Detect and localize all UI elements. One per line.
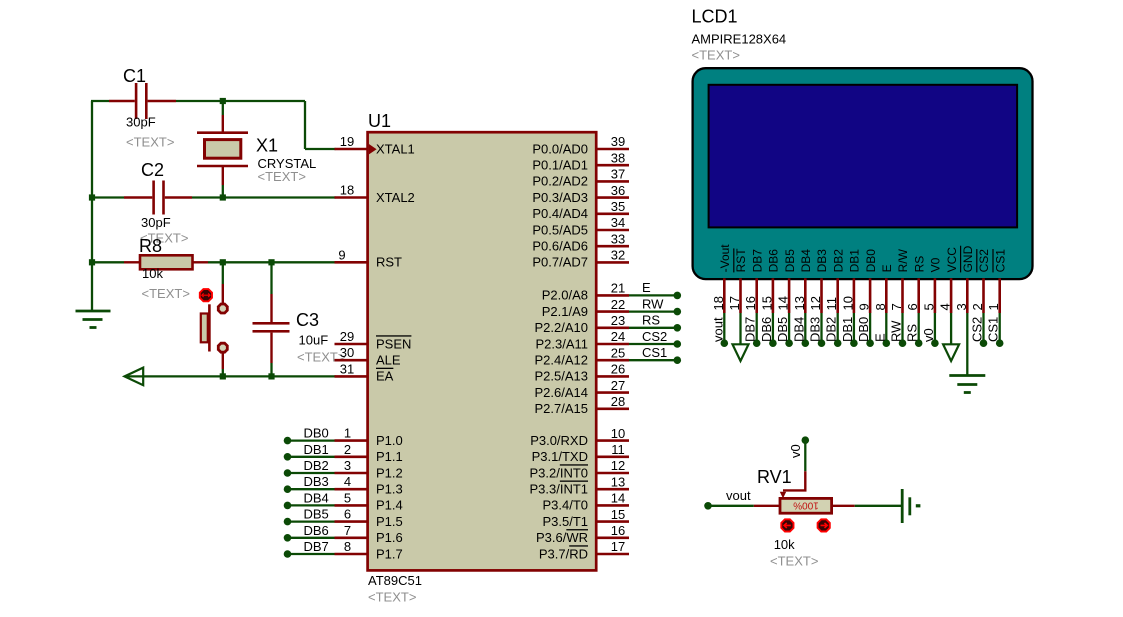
pin stub P3.7 (pin 17) xyxy=(595,553,629,556)
wire LCD DB6 net xyxy=(772,313,774,341)
svg-text:RS: RS xyxy=(905,324,920,342)
wire LCD CS1 net xyxy=(999,313,1001,341)
svg-text:v0: v0 xyxy=(788,444,803,458)
svg-text:35: 35 xyxy=(611,199,625,214)
arrow terminal (down) at LCD RST xyxy=(733,344,749,361)
wire DB2 net xyxy=(288,472,335,474)
svg-text:P2.1/A9: P2.1/A9 xyxy=(542,304,588,319)
svg-text:DB5: DB5 xyxy=(775,317,790,342)
svg-text:DB2: DB2 xyxy=(824,317,839,342)
terminal dot E xyxy=(674,292,682,300)
svg-text:<TEXT>: <TEXT> xyxy=(258,169,306,184)
svg-text:18: 18 xyxy=(711,296,726,310)
terminal dot DB2 xyxy=(284,469,292,477)
svg-text:-Vout: -Vout xyxy=(718,244,732,273)
svg-text:P1.3: P1.3 xyxy=(376,482,403,497)
pin stub P0.1 (pin 38) xyxy=(595,164,629,167)
svg-text:XTAL2: XTAL2 xyxy=(376,190,415,205)
node junction button bottom / EA rail xyxy=(220,373,226,379)
svg-text:7: 7 xyxy=(889,303,904,310)
wire RW net xyxy=(629,310,677,312)
svg-text:10k: 10k xyxy=(774,537,795,552)
pin stub EA (pin 31) xyxy=(335,375,369,378)
svg-text:CS2: CS2 xyxy=(970,317,985,342)
wire LCD VCC to arrow xyxy=(950,313,952,345)
svg-text:<TEXT>: <TEXT> xyxy=(770,554,818,569)
svg-text:3: 3 xyxy=(954,303,969,310)
wire LCD -Vout net xyxy=(723,313,725,341)
wire DB7 net xyxy=(288,553,335,555)
terminal dot LCD V0 xyxy=(931,339,939,347)
svg-text:DB6: DB6 xyxy=(767,249,781,273)
svg-text:<TEXT>: <TEXT> xyxy=(368,590,416,605)
svg-text:100%: 100% xyxy=(793,500,819,511)
svg-text:16: 16 xyxy=(743,296,758,310)
wire R8 rail left segment xyxy=(91,261,124,263)
svg-text:23: 23 xyxy=(611,313,625,328)
terminal dot LCD RS xyxy=(915,339,923,347)
wire C3 bottom segment xyxy=(270,363,272,376)
clock marker XTAL1 pin xyxy=(369,144,377,154)
wire C2 rail right segment xyxy=(192,196,336,198)
svg-text:DB1: DB1 xyxy=(304,442,329,457)
wire DB3 net xyxy=(288,488,335,490)
terminal dot LCD DB1 xyxy=(850,339,858,347)
svg-text:P2.4/A12: P2.4/A12 xyxy=(535,353,589,368)
svg-text:4: 4 xyxy=(938,303,953,310)
svg-text:32: 32 xyxy=(611,248,625,263)
svg-text:DB2: DB2 xyxy=(831,249,845,273)
svg-text:RW: RW xyxy=(889,320,904,342)
svg-text:DB3: DB3 xyxy=(815,249,829,273)
svg-text:14: 14 xyxy=(776,296,791,310)
svg-text:AMPIRE128X64: AMPIRE128X64 xyxy=(692,32,787,47)
wire DB1 net xyxy=(288,456,335,458)
svg-text:P3.0/RXD: P3.0/RXD xyxy=(530,433,588,448)
pin stub P3.1 (pin 11) xyxy=(595,455,629,458)
svg-text:E: E xyxy=(880,264,894,272)
svg-text:P0.5/AD5: P0.5/AD5 xyxy=(532,222,588,237)
svg-text:CS1: CS1 xyxy=(986,317,1001,342)
svg-text:P1.0: P1.0 xyxy=(376,433,403,448)
arrow terminal (down) at LCD VCC xyxy=(943,344,959,361)
LCD pin stub DB2 (pin 11) xyxy=(836,278,839,313)
svg-text:P1.6: P1.6 xyxy=(376,530,403,545)
terminal dot DB3 xyxy=(284,485,292,493)
pin stub RST (pin 9) xyxy=(335,261,369,264)
svg-text:5: 5 xyxy=(344,490,351,505)
wire E net xyxy=(629,294,677,296)
svg-text:CS2: CS2 xyxy=(642,329,667,344)
wire DB6 net xyxy=(288,537,335,539)
terminal dot LCD DB7 xyxy=(753,339,761,347)
pin stub ALE (pin 30) xyxy=(335,359,369,362)
svg-text:P3.6/WR: P3.6/WR xyxy=(536,530,588,545)
svg-text:24: 24 xyxy=(611,329,625,344)
terminal dot LCD DB4 xyxy=(802,339,810,347)
wire C3 top segment xyxy=(270,262,272,294)
terminal dot LCD E xyxy=(883,339,891,347)
wire C1 rail right segment xyxy=(176,100,305,102)
pin stub P1.4 (pin 5) xyxy=(335,504,369,507)
pin stub P3.6 (pin 16) xyxy=(595,536,629,539)
wire R8 rail right segment xyxy=(208,261,336,263)
svg-text:8: 8 xyxy=(344,539,351,554)
wire LCD CS2 net xyxy=(982,313,984,341)
svg-text:vout: vout xyxy=(710,317,725,342)
svg-text:4: 4 xyxy=(344,474,351,489)
LCD pin stub GND (pin 3) xyxy=(966,278,969,313)
wire vout xyxy=(711,505,754,507)
pin stub P0.5 (pin 34) xyxy=(595,229,629,232)
svg-text:v0: v0 xyxy=(921,328,936,342)
svg-text:10uF: 10uF xyxy=(299,333,329,348)
svg-text:ALE: ALE xyxy=(376,353,401,368)
svg-text:P0.1/AD1: P0.1/AD1 xyxy=(532,158,588,173)
svg-text:DB1: DB1 xyxy=(848,249,862,273)
LCD pin stub RST (pin 17) xyxy=(739,278,742,313)
LCD1 screen xyxy=(709,85,1018,228)
terminal dot LCD DB0 xyxy=(866,339,874,347)
svg-text:EA: EA xyxy=(376,369,394,384)
svg-text:18: 18 xyxy=(340,183,354,198)
svg-text:DB0: DB0 xyxy=(304,426,329,441)
svg-text:P2.7/A15: P2.7/A15 xyxy=(535,401,589,416)
svg-text:15: 15 xyxy=(611,507,625,522)
svg-text:R/W: R/W xyxy=(896,248,910,272)
RV1 actuator right xyxy=(818,519,830,531)
svg-text:RW: RW xyxy=(642,296,664,311)
pin stub XTAL1 (pin 19) xyxy=(335,148,369,151)
wire DB4 net xyxy=(288,504,335,506)
LCD1 body xyxy=(693,68,1033,279)
svg-text:10: 10 xyxy=(611,426,625,441)
svg-text:11: 11 xyxy=(824,297,839,311)
pin stub P3.2 (pin 12) xyxy=(595,472,629,475)
svg-text:13: 13 xyxy=(792,296,807,310)
svg-text:C2: C2 xyxy=(141,160,164,180)
node junction C3 bottom / EA rail xyxy=(268,373,274,379)
terminal dot v0 (RV1 top) xyxy=(802,436,810,444)
svg-text:37: 37 xyxy=(611,167,625,182)
terminal dot LCD -Vout xyxy=(721,339,729,347)
LCD pin stub E (pin 8) xyxy=(885,278,888,313)
svg-text:17: 17 xyxy=(727,296,742,310)
crystal X1 xyxy=(197,115,248,185)
svg-text:RS: RS xyxy=(642,313,660,328)
node junction C1/crystal top xyxy=(220,98,226,104)
svg-text:vout: vout xyxy=(726,488,751,503)
terminal dot CS1 xyxy=(674,356,682,364)
LCD pin stub V0 (pin 5) xyxy=(934,278,937,313)
svg-text:DB5: DB5 xyxy=(304,507,329,522)
svg-text:DB6: DB6 xyxy=(759,317,774,342)
LCD pin stub DB3 (pin 12) xyxy=(820,278,823,313)
svg-text:DB4: DB4 xyxy=(791,317,806,342)
pin stub P2.6 (pin 27) xyxy=(595,391,629,394)
wire LCD DB7 net xyxy=(756,313,758,341)
svg-text:28: 28 xyxy=(611,394,625,409)
LCD pin stub RS (pin 6) xyxy=(917,278,920,313)
svg-text:9: 9 xyxy=(857,303,872,310)
svg-text:26: 26 xyxy=(611,362,625,377)
wire DB0 net xyxy=(288,439,335,441)
svg-text:19: 19 xyxy=(340,134,354,149)
svg-text:13: 13 xyxy=(611,474,625,489)
wire LCD DB0 net xyxy=(869,313,871,341)
wire EA rail xyxy=(126,375,336,377)
svg-text:RS: RS xyxy=(912,256,926,273)
svg-text:39: 39 xyxy=(611,134,625,149)
wire LCD DB3 net xyxy=(820,313,822,341)
terminal dot vout (RV1 left) xyxy=(704,502,712,510)
svg-text:GND: GND xyxy=(961,245,975,272)
wire left vertical rail xyxy=(91,101,93,311)
svg-text:25: 25 xyxy=(611,345,625,360)
svg-text:CS1: CS1 xyxy=(642,345,667,360)
svg-text:P3.1/TXD: P3.1/TXD xyxy=(532,449,588,464)
terminal dot DB5 xyxy=(284,518,292,526)
capacitor C1 xyxy=(109,83,176,119)
svg-text:30: 30 xyxy=(340,345,354,360)
svg-text:6: 6 xyxy=(344,507,351,522)
wire CS1 net xyxy=(629,359,677,361)
pin stub P3.5 (pin 15) xyxy=(595,520,629,523)
pin stub PSEN (pin 29) xyxy=(335,343,369,346)
LCD pin stub DB7 (pin 16) xyxy=(755,278,758,313)
svg-text:P0.2/AD2: P0.2/AD2 xyxy=(532,174,588,189)
svg-text:VCC: VCC xyxy=(945,247,959,273)
svg-text:E: E xyxy=(872,333,887,342)
svg-text:DB4: DB4 xyxy=(304,490,329,505)
terminal dot LCD DB5 xyxy=(785,339,793,347)
svg-text:30pF: 30pF xyxy=(141,215,171,230)
svg-text:DB2: DB2 xyxy=(304,458,329,473)
svg-text:P3.7/RD: P3.7/RD xyxy=(539,546,588,561)
pin stub P2.0 (pin 21) xyxy=(595,294,629,297)
pin stub P3.0 (pin 10) xyxy=(595,439,629,442)
wire v0 vertical xyxy=(804,443,806,471)
ground (left, below R8 rail) xyxy=(76,311,111,328)
svg-text:DB1: DB1 xyxy=(840,317,855,342)
wire LCD DB4 net xyxy=(804,313,806,341)
pin stub P0.4 (pin 35) xyxy=(595,213,629,216)
node junction left rail / R8 xyxy=(89,259,95,265)
svg-text:12: 12 xyxy=(611,458,625,473)
svg-text:30pF: 30pF xyxy=(126,115,156,130)
wire button bottom segment xyxy=(222,369,224,376)
terminal dot LCD DB3 xyxy=(818,339,826,347)
svg-text:DB7: DB7 xyxy=(743,317,758,342)
svg-text:P3.4/T0: P3.4/T0 xyxy=(542,498,588,513)
pin stub P2.3 (pin 24) xyxy=(595,343,629,346)
svg-text:PSEN: PSEN xyxy=(376,336,411,351)
svg-text:16: 16 xyxy=(611,523,625,538)
svg-text:DB7: DB7 xyxy=(750,249,764,273)
push button xyxy=(201,284,229,369)
terminal dot LCD DB6 xyxy=(769,339,777,347)
svg-text:V0: V0 xyxy=(929,257,943,272)
capacitor C3 xyxy=(253,294,290,363)
ground (below LCD) xyxy=(949,376,985,393)
svg-text:AT89C51: AT89C51 xyxy=(368,573,422,588)
LCD pin stub DB5 (pin 14) xyxy=(788,278,791,313)
node junction C3 top / R8 xyxy=(268,259,274,265)
svg-text:12: 12 xyxy=(808,296,823,310)
pin stub P0.2 (pin 37) xyxy=(595,180,629,183)
svg-text:31: 31 xyxy=(340,361,354,376)
LCD pin stub DB6 (pin 15) xyxy=(772,278,775,313)
terminal dot DB6 xyxy=(284,534,292,542)
wire RV1 right to ground xyxy=(855,505,902,507)
svg-text:P3.2/INT0: P3.2/INT0 xyxy=(529,465,588,480)
svg-text:P2.6/A14: P2.6/A14 xyxy=(535,385,589,400)
wire corner to XTAL1 xyxy=(305,101,336,149)
pin stub P1.0 (pin 1) xyxy=(335,439,369,442)
terminal dot CS2 xyxy=(674,340,682,348)
ground (right of RV1, rotated) xyxy=(902,489,920,523)
svg-text:P3.5/T1: P3.5/T1 xyxy=(542,514,588,529)
wire DB5 net xyxy=(288,520,335,522)
svg-text:CS1: CS1 xyxy=(993,249,1007,273)
terminal dot LCD CS1 xyxy=(996,339,1004,347)
LCD pin stub VCC (pin 4) xyxy=(950,278,953,313)
pin stub P0.0 (pin 39) xyxy=(595,148,629,151)
svg-text:38: 38 xyxy=(611,150,625,165)
svg-text:10: 10 xyxy=(840,296,855,310)
wire C1 rail left segment xyxy=(91,100,109,102)
svg-text:14: 14 xyxy=(611,491,625,506)
svg-text:P2.0/A8: P2.0/A8 xyxy=(542,288,588,303)
LCD pin stub CS1 (pin 1) xyxy=(998,278,1001,313)
capacitor C2 xyxy=(124,181,192,215)
wire LCD V0 net xyxy=(934,313,936,341)
wire LCD RS net xyxy=(918,313,920,341)
svg-text:1: 1 xyxy=(986,303,1001,310)
svg-text:RV1: RV1 xyxy=(757,467,792,487)
node junction left rail / C2 xyxy=(89,194,95,200)
svg-text:P0.3/AD3: P0.3/AD3 xyxy=(532,190,588,205)
pin stub P3.4 (pin 14) xyxy=(595,504,629,507)
svg-text:X1: X1 xyxy=(256,136,278,156)
svg-text:P1.1: P1.1 xyxy=(376,449,403,464)
terminal dot LCD CS2 xyxy=(980,339,988,347)
terminal dot LCD DB2 xyxy=(834,339,842,347)
pin stub P1.5 (pin 6) xyxy=(335,520,369,523)
LCD pin stub DB4 (pin 13) xyxy=(804,278,807,313)
node junction crystal bottom / C2 xyxy=(220,194,226,200)
LCD pin stub -Vout (pin 18) xyxy=(723,278,726,313)
svg-text:P2.2/A10: P2.2/A10 xyxy=(535,320,589,335)
svg-text:XTAL1: XTAL1 xyxy=(376,141,415,156)
svg-text:P2.3/A11: P2.3/A11 xyxy=(535,336,588,351)
svg-text:<TEXT>: <TEXT> xyxy=(692,48,740,63)
svg-text:DB3: DB3 xyxy=(808,317,823,342)
svg-text:<TEXT>: <TEXT> xyxy=(126,135,174,150)
pin stub P3.3 (pin 13) xyxy=(595,488,629,491)
wire LCD R/W net xyxy=(901,313,903,341)
svg-text:P0.4/AD4: P0.4/AD4 xyxy=(532,206,588,221)
svg-text:29: 29 xyxy=(340,329,354,344)
wire LCD RST to arrow xyxy=(739,313,741,345)
svg-text:7: 7 xyxy=(344,523,351,538)
svg-text:RST: RST xyxy=(734,248,748,273)
resistor R8 xyxy=(124,255,208,269)
svg-text:1: 1 xyxy=(344,426,351,441)
svg-text:8: 8 xyxy=(873,303,888,310)
pin stub P2.7 (pin 28) xyxy=(595,407,629,410)
pin stub P0.3 (pin 36) xyxy=(595,196,629,199)
pin stub P1.1 (pin 2) xyxy=(335,455,369,458)
svg-text:P1.7: P1.7 xyxy=(376,546,403,561)
svg-text:27: 27 xyxy=(611,378,625,393)
wire C2 rail left segment xyxy=(91,196,124,198)
pin stub P2.1 (pin 22) xyxy=(595,310,629,313)
svg-text:2: 2 xyxy=(344,442,351,457)
svg-text:RST: RST xyxy=(376,255,402,270)
pin stub P0.7 (pin 32) xyxy=(595,261,629,264)
LCD pin stub DB0 (pin 9) xyxy=(869,278,872,313)
svg-text:22: 22 xyxy=(611,297,625,312)
potentiometer RV1 wiper xyxy=(780,471,807,498)
node junction button top / R8 xyxy=(220,259,226,265)
pin stub P2.4 (pin 25) xyxy=(595,359,629,362)
pin stub P2.2 (pin 23) xyxy=(595,326,629,329)
LCD pin stub DB1 (pin 10) xyxy=(853,278,856,313)
svg-text:P3.3/INT1: P3.3/INT1 xyxy=(529,482,588,497)
svg-text:DB6: DB6 xyxy=(304,523,329,538)
potentiometer RV1 body xyxy=(754,498,855,513)
terminal dot RW xyxy=(674,308,682,316)
terminal dot RS xyxy=(674,324,682,332)
LCD pin stub R/W (pin 7) xyxy=(901,278,904,313)
microcontroller U1 body xyxy=(368,132,597,570)
svg-text:P2.5/A13: P2.5/A13 xyxy=(535,369,589,384)
svg-text:6: 6 xyxy=(905,303,920,310)
wire LCD DB1 net xyxy=(853,313,855,341)
pin stub P1.7 (pin 8) xyxy=(335,553,369,556)
svg-text:DB5: DB5 xyxy=(783,249,797,273)
terminal dot DB1 xyxy=(284,453,292,461)
svg-text:P0.0/AD0: P0.0/AD0 xyxy=(532,141,588,156)
RV1 actuator left xyxy=(781,519,793,531)
svg-text:R8: R8 xyxy=(139,236,162,256)
LCD pin stub CS2 (pin 2) xyxy=(982,278,985,313)
svg-text:P0.6/AD6: P0.6/AD6 xyxy=(532,239,588,254)
wire LCD DB5 net xyxy=(788,313,790,341)
pin stub P1.2 (pin 3) xyxy=(335,472,369,475)
terminal dot DB7 xyxy=(284,550,292,558)
svg-text:<TEXT>: <TEXT> xyxy=(142,286,190,301)
wire crystal bottom stub xyxy=(222,185,224,198)
svg-text:DB0: DB0 xyxy=(864,249,878,273)
svg-text:21: 21 xyxy=(611,281,625,296)
wire button top segment xyxy=(222,262,224,284)
svg-text:DB4: DB4 xyxy=(799,249,813,273)
svg-text:2: 2 xyxy=(970,303,985,310)
terminal dot LCD R/W xyxy=(899,339,907,347)
terminal dot DB0 xyxy=(284,437,292,445)
svg-text:P0.7/AD7: P0.7/AD7 xyxy=(532,255,588,270)
svg-text:5: 5 xyxy=(921,303,936,310)
svg-text:33: 33 xyxy=(611,231,625,246)
wire CS2 net xyxy=(629,343,677,345)
svg-text:U1: U1 xyxy=(368,111,391,131)
svg-text:E: E xyxy=(642,280,651,295)
wire crystal top stub xyxy=(222,101,224,115)
svg-text:DB0: DB0 xyxy=(856,317,871,342)
svg-text:<TEXT>: <TEXT> xyxy=(297,350,345,365)
